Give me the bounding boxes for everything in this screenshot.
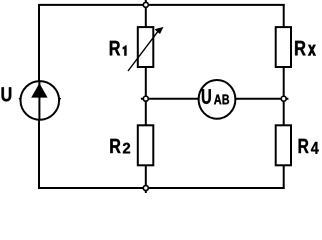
label R2 - subscript 2 (123, 143, 130, 154)
label Rx - x (308, 45, 315, 55)
resistor R1 variable arrowhead (155, 27, 164, 34)
label R1 - subscript 1 (123, 45, 127, 55)
label U source (2, 87, 12, 101)
resistor R1 box (138, 27, 154, 67)
source U1 internal arrow line (38, 81, 40, 119)
resistor R2 box (138, 125, 154, 165)
label UAB - subscript B (223, 95, 230, 105)
label R1 - R (110, 41, 120, 56)
meter UAB circle (199, 80, 236, 119)
wire middle vertical branch (145, 0, 147, 193)
label R4 - subscript 4 (311, 142, 319, 154)
label R4 - R (299, 139, 309, 153)
wire top horizontal (38, 4, 285, 6)
label UAB - subscript A (214, 95, 221, 105)
label Rx - R (295, 41, 306, 56)
source U1 left pin tick (19, 98, 21, 100)
source U1 circle (21, 81, 60, 120)
label R2 - R (110, 139, 120, 153)
source U1 right pin tick (58, 98, 61, 100)
resistor R4 box (276, 125, 291, 165)
node bottom junction (143, 186, 148, 191)
wire bottom horizontal (38, 187, 285, 189)
node B (mid-right) (281, 96, 286, 101)
node A (mid-left) (143, 96, 148, 101)
resistor Rx box (276, 27, 291, 67)
wire left vertical (38, 4, 40, 189)
label UAB - U (202, 89, 211, 104)
resistor R1 variable arrow shaft (128, 31, 158, 71)
source U1 arrowhead (31, 83, 47, 97)
wire right vertical (283, 4, 285, 189)
node top junction (143, 2, 148, 7)
wire middle horizontal bridge (141, 98, 289, 100)
